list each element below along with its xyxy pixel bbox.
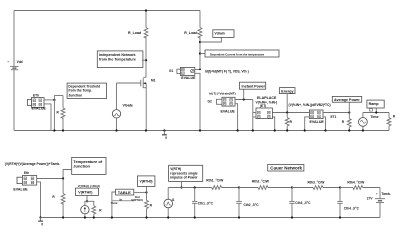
- svg-text:V( Rth(t) )=Zth(t): V( Rth(t) )=Zth(t): [78, 184, 100, 188]
- wire rail segment 4: [340, 187, 353, 189]
- svg-text:Id( Tj )*Vdrain(MT): Id( Tj )*Vdrain(MT): [209, 91, 236, 95]
- resistor Rth4: [347, 180, 380, 189]
- wire drain branch left: [145, 37, 147, 77]
- annotation box Independent Network: [97, 51, 146, 68]
- svg-text:V(RTH0): V(RTH0): [78, 191, 93, 195]
- wire ETh out- to bus: [44, 104, 51, 131]
- svg-text:G2: G2: [208, 99, 212, 103]
- svg-text:Time: Time: [370, 115, 378, 119]
- g-source G1 GVALUE: [169, 67, 196, 80]
- svg-text:(ET): (ET): [260, 104, 266, 108]
- svg-text:M1: M1: [151, 79, 156, 83]
- e-source Eth EVALUE: [13, 171, 36, 191]
- svg-text:R: R: [393, 115, 396, 119]
- label Time: [370, 115, 378, 119]
- annotation box Temperature of Junction: [72, 157, 106, 174]
- svg-text:(V(%IN+, %IN-)|dEVB2|*TC): (V(%IN+, %IN-)|dEVB2|*TC): [289, 103, 331, 107]
- svg-text:Cauer Network: Cauer Network: [270, 166, 302, 171]
- ground 0 (bottom circuit): [38, 218, 43, 227]
- wire gate: [117, 82, 141, 84]
- wire ETh out+: [44, 99, 56, 101]
- svg-text:Rth4_°C/W: Rth4_°C/W: [347, 180, 365, 184]
- svg-text:Junction: Junction: [73, 164, 90, 169]
- svg-text:R_Load: R_Load: [128, 31, 141, 35]
- annotation box Energy: [280, 88, 296, 114]
- annotation box Vdrain: [213, 30, 234, 38]
- svg-text:from the Temp.: from the Temp.: [68, 88, 92, 92]
- wire source M1 to bus: [145, 83, 147, 131]
- source VGate: [112, 83, 133, 132]
- svg-text:I1: I1: [172, 198, 175, 202]
- resistor R (temp junction): [52, 179, 65, 219]
- battery Tamb 27V: [367, 188, 391, 218]
- svg-text:TABLE: TABLE: [118, 190, 131, 195]
- battery Vdd: [7, 60, 22, 70]
- svg-text:Vdd: Vdd: [17, 60, 23, 64]
- label Rth curve expression: [78, 184, 100, 188]
- svg-text:Cth1_J/°C: Cth1_J/°C: [198, 201, 214, 205]
- annotation box V(RTH0) right: [137, 176, 155, 193]
- annotation box Instant Power: [240, 82, 266, 99]
- ground 0 (top circuit): [162, 129, 167, 140]
- capacitor Cth2: [236, 186, 259, 218]
- svg-text:R: R: [290, 120, 293, 124]
- annotation box Dependent Treshold: [67, 83, 106, 98]
- svg-text:Junction: Junction: [68, 94, 82, 98]
- resistor R (Rth): [87, 201, 102, 218]
- e-source ET1 EVALUE: [309, 110, 336, 124]
- svg-text:Average Power: Average Power: [334, 98, 360, 102]
- svg-text:from the Temperature: from the Temperature: [99, 57, 136, 61]
- wire G1 out- to bus: [195, 73, 201, 131]
- resistor R (average): [342, 113, 351, 132]
- wire Eth out+: [37, 177, 64, 179]
- svg-text:Rth1_°C/W: Rth1_°C/W: [206, 178, 224, 182]
- svg-text:EVALUE: EVALUE: [32, 107, 47, 111]
- svg-text:Instant Power: Instant Power: [242, 84, 266, 88]
- label expression Id: [205, 70, 249, 74]
- wire TABLE out: [134, 191, 148, 193]
- wire ET out+ energy node: [272, 112, 309, 114]
- source ramp generator: [359, 113, 368, 132]
- svg-text:Id(t)=Id(MT) F( Tj, VDS, Vth ): Id(t)=Id(MT) F( Tj, VDS, Vth ): [205, 70, 249, 74]
- annotation box Cauer Network: [268, 165, 304, 172]
- svg-text:Tamb.: Tamb.: [382, 192, 391, 196]
- node drain M1: [145, 9, 147, 61]
- svg-text:R: R: [52, 195, 55, 199]
- svg-text:Dependent Current from the tem: Dependent Current from the temperature: [210, 52, 265, 56]
- svg-text:V(RTH0): V(RTH0): [140, 179, 153, 183]
- wire ground bus (top circuit): [14, 130, 389, 132]
- wire to temperature box: [63, 170, 72, 179]
- svg-text:impulse of Power: impulse of Power: [170, 176, 198, 180]
- wire rail segment 3: [292, 187, 313, 189]
- resistor Rth2: [252, 179, 292, 189]
- e-source G2 EVALUE: [208, 91, 236, 113]
- svg-text:V(%IN+, %IN-): V(%IN+, %IN-): [256, 101, 278, 105]
- svg-text:Energy: Energy: [281, 89, 293, 93]
- svg-text:G1: G1: [169, 69, 173, 73]
- resistor R_Load (left): [128, 11, 148, 39]
- resistor R (table out): [145, 192, 153, 218]
- wire node to resistor: [54, 95, 63, 97]
- wire left branch lower: [13, 70, 15, 131]
- svg-text:Time: Time: [111, 201, 118, 205]
- resistor R (time): [387, 113, 396, 131]
- annotation box Dependent Current: [200, 50, 279, 57]
- node Vdrain tap: [199, 41, 201, 43]
- svg-text:R: R: [99, 208, 102, 212]
- wire Eth out- to ground: [37, 182, 42, 219]
- wire ground bus (bottom circuit): [41, 217, 381, 219]
- wire to Vdrain label: [200, 37, 221, 42]
- svg-text:Ramp: Ramp: [369, 102, 380, 106]
- resistor R_Load (right): [184, 11, 202, 39]
- capacitor Cth4: [337, 186, 359, 218]
- svg-text:Rth3_°C/W: Rth3_°C/W: [308, 180, 326, 184]
- svg-text:R: R: [150, 203, 153, 207]
- label average power expression: [289, 103, 331, 107]
- svg-text:+: +: [376, 192, 378, 196]
- label junction temperature expression: [5, 162, 60, 166]
- wire G2 out+ power node: [235, 98, 253, 100]
- resistor R (energy): [285, 113, 292, 132]
- wire cauer rail: [168, 187, 212, 189]
- svg-text:R: R: [57, 111, 60, 115]
- wire G1 out+: [195, 69, 201, 71]
- e-source ETh EVALUE: [28, 94, 47, 111]
- wire G2 out- to bus: [235, 104, 239, 132]
- wire ET1 in- to bus: [304, 117, 310, 132]
- annotation box Ramp: [367, 100, 384, 112]
- svg-text:0: 0: [165, 136, 167, 140]
- svg-text:27V: 27V: [367, 197, 374, 201]
- svg-text:ELAPLACE: ELAPLACE: [257, 96, 277, 100]
- svg-text:EVALUE: EVALUE: [13, 187, 28, 191]
- wire top rail: [14, 10, 200, 12]
- svg-text:ET1: ET1: [331, 115, 337, 119]
- svg-text:V(RTH0): V(RTH0): [131, 198, 142, 202]
- wire left branch upper: [13, 11, 15, 67]
- laplace block ET: [253, 96, 277, 119]
- annotation box impulse of power: [169, 165, 203, 188]
- svg-text:Cth2_J/°C: Cth2_J/°C: [244, 203, 260, 207]
- annotation box V(RTH0) left: [75, 188, 98, 202]
- svg-text:R_Load: R_Load: [184, 31, 197, 35]
- wire ET out- to bus: [272, 117, 275, 132]
- svg-text:GVALUE: GVALUE: [181, 76, 196, 80]
- svg-text:EVALUE: EVALUE: [221, 110, 236, 114]
- svg-text:R: R: [342, 120, 345, 124]
- annotation box Average Power: [332, 96, 361, 112]
- node dependent current tap: [199, 52, 201, 54]
- wire power node down: [252, 100, 254, 132]
- svg-text:Eth: Eth: [24, 171, 29, 175]
- capacitor Cth3: [289, 186, 311, 218]
- wire ET1 out- to bus: [323, 117, 327, 132]
- wire ET1 out+ avg node: [323, 111, 350, 113]
- svg-text:(V(RTH)*(V(Average Power))+Tam: (V(RTH)*(V(Average Power))+Tamb.: [5, 162, 60, 166]
- resistor Rth1: [206, 178, 239, 189]
- svg-text:Cth3_J/°C: Cth3_J/°C: [295, 201, 311, 205]
- wire drain branch right: [199, 37, 201, 69]
- svg-text:VGate: VGate: [123, 103, 133, 107]
- svg-text:+: +: [7, 60, 9, 64]
- svg-text:Cth4_J/°C: Cth4_J/°C: [344, 206, 360, 210]
- wire time node: [363, 111, 389, 113]
- resistor R (threshold): [57, 96, 65, 132]
- source current 1A (Rth): [81, 201, 89, 218]
- wire rail segment 2: [239, 187, 258, 189]
- wire node to bus: [53, 96, 55, 132]
- resistor Rth3: [308, 180, 341, 189]
- capacitor Cth1: [192, 186, 214, 218]
- svg-text:Vdrain: Vdrain: [215, 32, 225, 36]
- source impulse power: [164, 188, 175, 219]
- svg-text:Rth2_°C/W: Rth2_°C/W: [252, 179, 270, 183]
- transistor M1: [141, 77, 156, 88]
- table block TABLE: [111, 189, 143, 218]
- svg-text:ETh: ETh: [33, 94, 39, 98]
- svg-text:0: 0: [41, 223, 43, 227]
- svg-text:EVALUE: EVALUE: [310, 120, 325, 124]
